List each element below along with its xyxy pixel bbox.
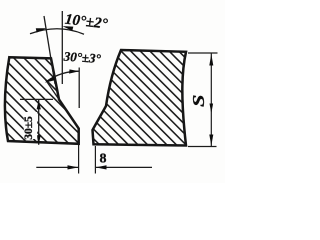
svg-text:S: S: [189, 95, 208, 108]
root gap left dimension line: [36, 166, 78, 168]
30±5 top arrow: [37, 100, 41, 110]
30±5 extension line: [20, 98, 53, 100]
30deg vertical reference line: [78, 68, 80, 109]
right plate hatching: [0, 40, 320, 210]
S bottom arrow: [209, 135, 213, 146]
root gap left extension line: [78, 145, 80, 174]
svg-text:30±5: 30±5: [23, 116, 35, 140]
10deg dimension arc: [30, 29, 84, 34]
30deg face extension line: [45, 79, 59, 99]
30±5 dimension line: [38, 99, 40, 144]
root gap left arrow: [68, 165, 79, 169]
left plate hatching: [0, 40, 217, 210]
30deg arc left arrow: [45, 76, 56, 82]
svg-text:8: 8: [100, 152, 107, 167]
left plate outline: [5, 57, 79, 144]
10deg slant extension line: [44, 16, 55, 84]
10deg arc left arrow: [36, 28, 47, 32]
S top arrow: [209, 54, 213, 66]
10deg vertical reference line: [61, 11, 63, 84]
10deg arc right arrow: [62, 26, 73, 31]
S top extension line: [188, 52, 218, 54]
root gap right extension line: [94, 146, 96, 174]
30deg arc right arrow: [69, 69, 79, 73]
root gap right dimension line: [96, 166, 152, 168]
S bottom extension line: [188, 146, 217, 148]
30deg dimension arc: [47, 71, 79, 81]
svg-text:30°±3°: 30°±3°: [62, 48, 102, 66]
root gap right arrow: [96, 165, 107, 169]
label 30±5 halo: [24, 112, 37, 139]
30±5 bottom arrow: [37, 135, 41, 145]
S mid arrow mark: [210, 104, 214, 114]
S dimension line: [210, 54, 212, 147]
right plate outline: [93, 50, 187, 146]
